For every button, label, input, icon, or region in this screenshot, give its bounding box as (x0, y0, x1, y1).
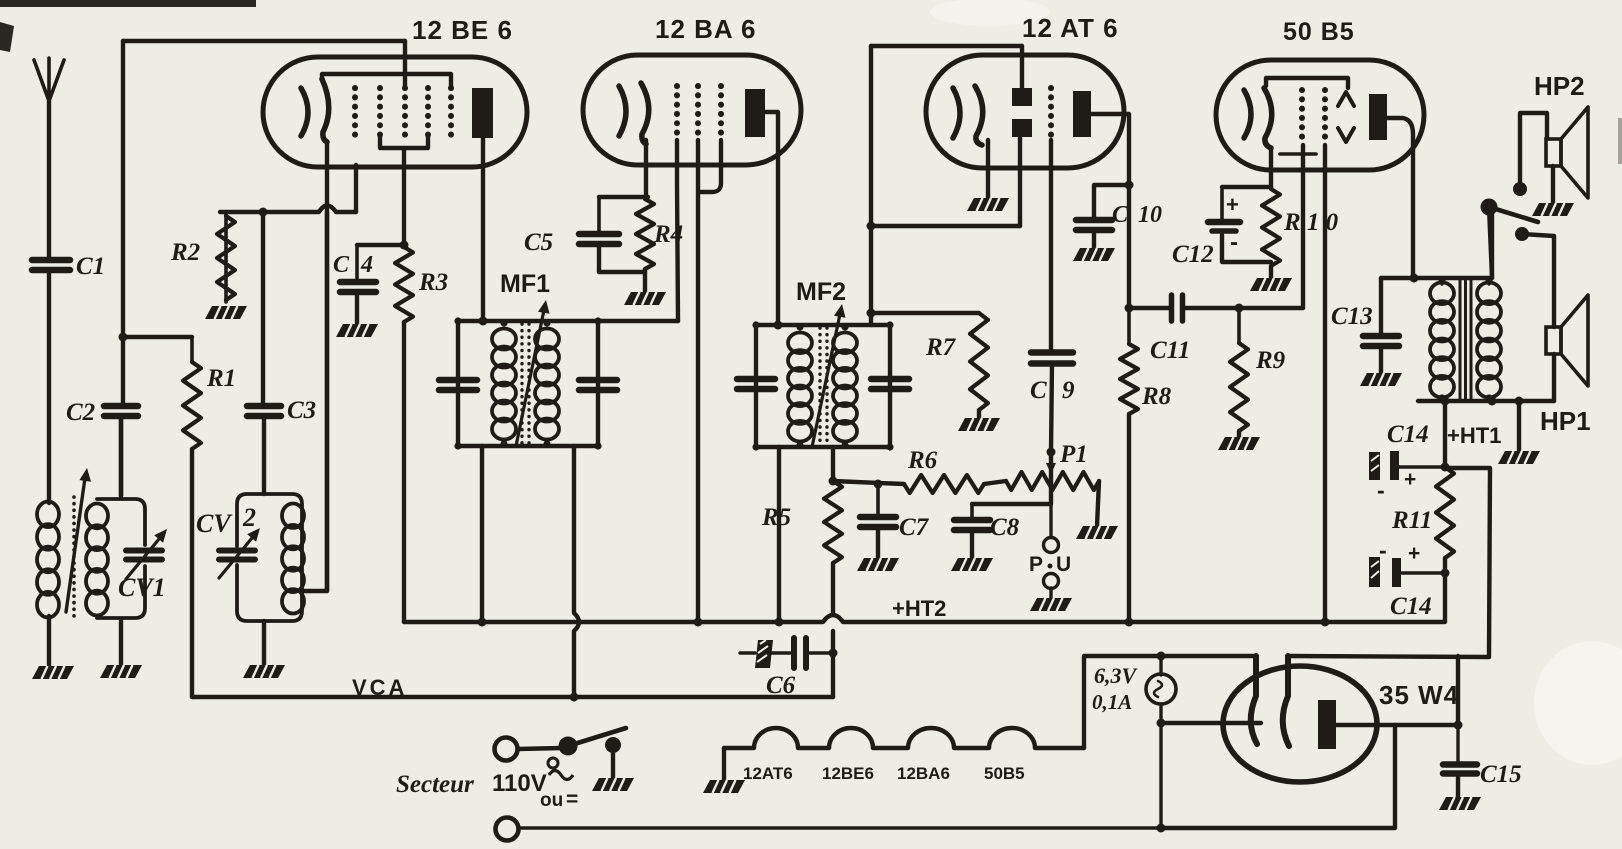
wire V4 plate out (1387, 118, 1413, 278)
svg-text:110V: 110V (492, 770, 547, 797)
variable capacitor CV2 (219, 551, 255, 560)
V1 grid5 (448, 88, 454, 136)
node HT1 (1441, 397, 1450, 472)
svg-text:-: - (1379, 537, 1387, 563)
wire antenna to coil (47, 271, 51, 503)
svg-text:P: P (1029, 553, 1043, 576)
wire MF2 primary HT (777, 447, 781, 622)
label P1 (1059, 441, 1088, 468)
V4 grid1 (1299, 90, 1305, 142)
V1 grid3 (402, 88, 408, 136)
capacitor C1 (32, 260, 70, 270)
node sec bottom (1488, 397, 1524, 406)
node C11 R8 (1125, 304, 1134, 313)
wire primary top (1438, 276, 1492, 401)
capacitor C3 (247, 406, 281, 416)
V1 cathode arc (322, 79, 329, 142)
ground C15 (1439, 797, 1481, 810)
V5 heater arc (1251, 656, 1257, 744)
label CV2 (196, 503, 256, 538)
wire HT2 to filter (1443, 573, 1447, 622)
capacitor C10 (1076, 220, 1112, 230)
V4 grid2 (1322, 90, 1328, 142)
label 6.3V (1092, 663, 1139, 714)
svg-text:10: 10 (1138, 202, 1162, 228)
transformer core (1460, 278, 1471, 401)
label R6 (907, 447, 938, 474)
pilot lamp 6.3V (1146, 656, 1176, 828)
terminal mains bottom (496, 818, 519, 841)
wire C8 ground (970, 531, 974, 558)
contact HP2 (1513, 182, 1527, 196)
node MF2 plate (752, 321, 893, 451)
ground R4 (624, 292, 666, 305)
wire C11 to g1 (1184, 306, 1303, 310)
wire MF1 secondary AVC (574, 446, 579, 697)
capacitor C6 (740, 638, 833, 668)
ground C7 (857, 558, 899, 571)
node det riser (867, 222, 876, 231)
wire C15 ground (1456, 775, 1460, 797)
svg-text:C: C (333, 252, 350, 278)
svg-text:+HT1: +HT1 (1447, 423, 1501, 448)
wire V4 grid down (1301, 145, 1305, 308)
terminal PU in (1044, 504, 1059, 553)
svg-text:MF1: MF1 (500, 270, 550, 298)
node HT2 end (1441, 569, 1450, 578)
svg-text:R3: R3 (418, 269, 448, 296)
wire HT1 link (1446, 468, 1490, 656)
label C14 upper (1387, 421, 1429, 448)
wire speaker ground (1517, 401, 1521, 451)
MF1 right branch (596, 321, 600, 446)
svg-text:+: + (1404, 468, 1416, 491)
resistor R3 (395, 247, 413, 622)
transformer primary (1430, 283, 1454, 398)
ground P1 (1076, 526, 1118, 539)
heater chain (724, 728, 1084, 748)
arrow CV2 (219, 528, 260, 578)
resistor R8 (1120, 308, 1138, 622)
coil L3 oscillator (282, 504, 304, 614)
wire mains line (519, 826, 1161, 829)
transformer secondary (1477, 283, 1501, 398)
label PU (1029, 553, 1071, 576)
label MF1 (500, 270, 550, 298)
tuning arrow L1 (66, 468, 91, 612)
wire V5 plate line (1336, 723, 1458, 727)
label C6 (766, 672, 796, 699)
label R5 (761, 504, 791, 531)
resistor R7 (970, 313, 988, 410)
label 12BA6 heater (897, 764, 950, 783)
scan edge (0, 0, 1622, 164)
label C13 (1331, 303, 1373, 330)
resistor R5 (824, 481, 842, 563)
MF1 core dashed (522, 324, 529, 444)
V1 plate (472, 88, 493, 138)
svg-text:12 AT 6: 12 AT 6 (1022, 13, 1119, 43)
MF1 top rail (458, 319, 678, 323)
wire P1 right ground (1097, 481, 1099, 526)
svg-text:35 W4: 35 W4 (1379, 680, 1459, 710)
V4 cathode arc (1264, 88, 1272, 148)
wire C4 bracket (357, 243, 404, 247)
wire V3 grid down (1049, 140, 1053, 352)
V2 plate (745, 89, 765, 137)
wire grid line top (123, 39, 405, 43)
svg-text:50B5: 50B5 (984, 764, 1025, 783)
ground PU (1030, 598, 1072, 611)
transformer bottom rail (1418, 399, 1554, 403)
label R2 (170, 239, 200, 266)
V1 grid2 (377, 88, 383, 136)
wire switch ground (611, 752, 615, 778)
label C14 lower (1390, 593, 1432, 620)
wire C3 to CV2 (262, 417, 266, 494)
wire plug to switch (518, 748, 562, 749)
svg-text:C14: C14 (1387, 421, 1429, 448)
svg-text:ou: ou (540, 790, 563, 811)
capacitor MF2 right (871, 379, 909, 389)
svg-text:C2: C2 (66, 399, 95, 426)
wire V5 cathode out (1288, 656, 1489, 657)
svg-text:R6: R6 (907, 447, 938, 474)
wire V4 cathode down (1269, 148, 1273, 188)
ground R10 (1250, 278, 1292, 291)
antenna (34, 58, 64, 259)
node AVC junction (119, 333, 128, 342)
ground HP2 (1532, 203, 1574, 216)
svg-text:4: 4 (360, 252, 373, 278)
svg-text:12 BE 6: 12 BE 6 (412, 15, 513, 45)
wire L2 to ground (119, 621, 123, 665)
wire det top (871, 46, 1022, 88)
node wiper (1047, 448, 1056, 457)
wire V3 cathode gnd (986, 140, 990, 198)
switch HP lever (1481, 199, 1539, 223)
label 12BE6 (412, 15, 513, 45)
node R9 top (1235, 304, 1244, 313)
wire V3 plate out (1091, 114, 1129, 308)
ground switch (592, 778, 634, 791)
svg-text:CV1: CV1 (118, 573, 166, 602)
svg-text:12 BA 6: 12 BA 6 (655, 14, 756, 44)
node C3 top (259, 208, 268, 217)
svg-text:C7: C7 (899, 514, 930, 541)
svg-text:C1: C1 (76, 253, 105, 280)
V1 heater arc (301, 88, 308, 136)
MF2 core dashed (820, 328, 827, 444)
wire C13 ground (1379, 347, 1383, 373)
wire C10 bracket (1094, 185, 1129, 218)
svg-text:R5: R5 (761, 504, 791, 531)
capacitor C13 (1363, 278, 1399, 346)
capacitor C14 lower (1369, 537, 1445, 587)
label HP1 (1540, 406, 1591, 436)
svg-text:HP2: HP2 (1534, 71, 1585, 101)
MF2 left branch (754, 325, 758, 447)
label R11 (1391, 507, 1432, 534)
transformer top rail (1381, 276, 1492, 280)
svg-text:R4: R4 (653, 221, 683, 248)
wire left vertical (121, 41, 125, 403)
MF2 top rail (756, 323, 890, 327)
ground R2 (205, 306, 247, 319)
ground heater (703, 780, 745, 793)
label AC symbol (548, 758, 573, 780)
wire R10 ground (1269, 266, 1273, 278)
wire det lower diode (871, 137, 1020, 226)
svg-text:C5: C5 (524, 229, 553, 256)
V5 cathode arc (1283, 656, 1289, 746)
wire V4 screen down (1323, 145, 1327, 622)
svg-text:12BE6: 12BE6 (822, 764, 874, 783)
MF1 secondary coil (535, 329, 559, 440)
speaker HP2 (1546, 107, 1588, 198)
svg-text:R1: R1 (206, 365, 236, 392)
wire g3 entry (403, 41, 407, 88)
capacitor C5 (579, 197, 619, 244)
wire HP1 bottom (1552, 354, 1556, 401)
MF1 primary coil (492, 329, 516, 440)
paper flaw (930, 0, 1622, 765)
wire V2 grid1 down (677, 140, 678, 321)
label ou (540, 788, 578, 811)
label MF2 (796, 278, 846, 306)
label C10 (1112, 202, 1162, 228)
wire HP1 lead (1522, 234, 1554, 327)
ground speakers (1498, 451, 1540, 464)
ground antenna coil (32, 666, 74, 679)
svg-text:C11: C11 (1150, 337, 1190, 364)
svg-text:VCA: VCA (352, 675, 407, 700)
svg-text:+: + (1226, 192, 1239, 217)
label C1 (76, 253, 105, 280)
svg-text:C: C (1030, 377, 1047, 404)
svg-text:MF2: MF2 (796, 278, 846, 306)
wire C5 bracket (599, 195, 648, 199)
V5 plate (1318, 700, 1336, 749)
capacitor C12 electrolytic (1208, 187, 1240, 256)
label C15 (1480, 761, 1522, 788)
svg-text:+HT2: +HT2 (892, 596, 946, 621)
wire C2 into frame (119, 417, 123, 496)
wire HT1 riser (1443, 401, 1447, 467)
wire R6 P1 (984, 481, 1006, 484)
MF1 left branch (456, 321, 460, 446)
label C11 (1150, 337, 1190, 364)
node MF1 AVC (570, 693, 579, 702)
svg-text:-: - (1230, 229, 1238, 256)
V2 cathode arc (641, 83, 649, 144)
wire P1 wiper (1046, 452, 1056, 503)
V4 beam chevron down (1338, 128, 1354, 142)
ground C10 (1073, 248, 1115, 261)
svg-text:CV: CV (196, 509, 233, 538)
V3 diode plate lower (1012, 119, 1032, 137)
node R7 top (867, 309, 876, 318)
wire det to C11 (1129, 306, 1170, 310)
node R5 top (829, 477, 838, 486)
capacitor MF1 left (439, 380, 477, 390)
svg-text:=: = (566, 788, 578, 811)
coil L2 secondary (86, 499, 145, 618)
wire C3 drop (261, 212, 265, 404)
svg-text:R7: R7 (925, 334, 957, 361)
label 12AT6 (1022, 13, 1119, 43)
svg-text:12AT6: 12AT6 (743, 764, 793, 783)
capacitor C4 (340, 245, 376, 292)
MF1 bottom rail (458, 444, 598, 448)
MF2 arrow (812, 304, 846, 447)
capacitor MF2 left (737, 379, 775, 389)
MF2 right branch (888, 325, 892, 447)
MF1 arrow (516, 300, 550, 446)
resistor R6 (904, 475, 984, 493)
V2 heater arc (619, 86, 626, 136)
V3 diode plate upper (1012, 88, 1032, 106)
wire C12 bottom (1222, 235, 1271, 262)
tube V2 12BA6 envelope (583, 55, 801, 165)
arrow CV1 (126, 529, 167, 579)
V1 grid4 (425, 88, 431, 136)
svg-text:Secteur: Secteur (396, 771, 474, 798)
tube V1 12BE6 envelope (263, 57, 527, 167)
wire mains riser (1161, 725, 1395, 828)
svg-text:0,1A: 0,1A (1092, 690, 1132, 714)
wire grid-1 bus (220, 206, 356, 213)
ground V3 cathode (967, 198, 1009, 211)
contact HP1 (1515, 227, 1529, 241)
capacitor C8 (954, 504, 990, 530)
wire V2 screen down (696, 140, 700, 622)
ground C4 (336, 324, 378, 337)
svg-text:HP1: HP1 (1540, 406, 1591, 436)
svg-text:C8: C8 (990, 514, 1020, 541)
node V2 screen HT2 (694, 618, 703, 627)
wire HP2 ground (1551, 166, 1555, 203)
node MF2 HT2 (775, 618, 784, 627)
svg-text:-: - (1377, 477, 1385, 503)
wire R5 to VCA (831, 563, 835, 697)
svg-text:6,3V: 6,3V (1094, 663, 1139, 688)
wire C9 down (1051, 364, 1052, 452)
label HT2 (892, 596, 946, 621)
resistor R1 (183, 337, 201, 697)
label R3 (418, 269, 448, 296)
V4 beam chevron up (1338, 92, 1354, 106)
label R10 (1283, 209, 1339, 236)
label C8 (990, 514, 1020, 541)
wire cathode drop (1456, 656, 1460, 725)
svg-text:9: 9 (1062, 377, 1075, 404)
label HT1 (1447, 423, 1501, 448)
label C12 (1172, 241, 1214, 268)
node MF1 plate (454, 317, 601, 450)
wire coil to ground (47, 616, 51, 666)
svg-text:12BA6: 12BA6 (897, 764, 950, 783)
label 12AT6 heater (743, 764, 793, 783)
svg-text:50 B5: 50 B5 (1283, 18, 1355, 46)
resistor R11 (1436, 467, 1454, 573)
svg-text:+: + (1408, 542, 1420, 565)
label 12BE6 heater (822, 764, 874, 783)
node R3 top (400, 241, 409, 250)
node C15 top (1454, 721, 1463, 730)
svg-text:C13: C13 (1331, 303, 1373, 330)
node MF1 HT2 (478, 618, 487, 627)
capacitor C9 (1031, 353, 1073, 364)
tube V3 12AT6 envelope (926, 55, 1124, 168)
label 12BA6 (655, 14, 756, 44)
V3 heater arc (953, 88, 960, 138)
wire osc tap (302, 212, 327, 591)
ground C13 (1360, 373, 1402, 386)
terminal PU gnd (1044, 574, 1059, 599)
V4 plate (1369, 94, 1387, 140)
resistor R9 (1230, 308, 1248, 431)
capacitor C7 (860, 484, 896, 527)
wire R4 ground (643, 269, 647, 292)
V1 grid1 (352, 88, 358, 136)
bus VCA (192, 695, 833, 699)
resistor R4 (636, 199, 654, 269)
svg-text:C15: C15 (1480, 761, 1522, 788)
label 50B5 heater (984, 764, 1025, 783)
ground L2 (100, 665, 142, 678)
node C6 (829, 649, 838, 658)
switch mains (559, 728, 627, 756)
V3 cathode arc (975, 86, 983, 145)
svg-text:R11: R11 (1391, 507, 1432, 534)
V3 grid (1048, 88, 1054, 140)
label R7 (925, 334, 957, 361)
label HP2 (1534, 71, 1585, 101)
label Secteur (396, 770, 547, 798)
label C9 (1030, 377, 1075, 404)
terminal mains top (495, 738, 518, 761)
wire lamp to heater (1161, 721, 1261, 725)
ground R9 (1218, 437, 1260, 450)
wire AVC to R1 (121, 335, 192, 339)
wire C7 ground (876, 528, 880, 558)
wire V1 screen down (402, 148, 406, 245)
V1 screen bracket (380, 136, 428, 148)
label 50B5 (1283, 18, 1355, 46)
capacitor C2 (104, 406, 138, 416)
ground CV2 (243, 665, 285, 678)
wire C5 R4 bottom (599, 245, 645, 272)
svg-text:C: C (1112, 202, 1129, 228)
resistor R10 (1262, 189, 1280, 266)
node C10 (1125, 181, 1134, 190)
wire V2 cathode down (644, 140, 648, 197)
coil L1 primary (37, 502, 59, 618)
node mains junction (1157, 824, 1166, 833)
svg-text:C12: C12 (1172, 241, 1214, 268)
node lamp bottom (1157, 719, 1166, 728)
wire R6 lead (833, 481, 904, 484)
speaker HP1 (1546, 295, 1588, 386)
V2 grid2 (695, 86, 701, 138)
ground R7 (958, 418, 1000, 431)
potentiometer P1 (1006, 472, 1099, 490)
wire heater riser (1084, 656, 1255, 748)
core L1 dashed (72, 497, 76, 620)
wire V2 g3 tie (699, 140, 721, 192)
wire V1 cathode down (325, 143, 329, 591)
